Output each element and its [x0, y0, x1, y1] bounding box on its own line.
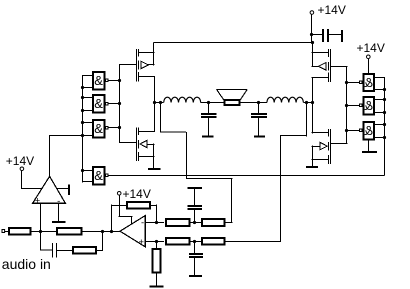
svg-text:+14V: +14V: [318, 3, 346, 17]
svg-text:-: -: [57, 196, 60, 207]
svg-text:+: +: [35, 195, 41, 206]
svg-text:&: &: [94, 168, 103, 183]
svg-text:&: &: [94, 73, 103, 88]
svg-text:+14V: +14V: [6, 154, 34, 168]
svg-text:+: +: [139, 237, 145, 248]
svg-text:-: -: [141, 218, 144, 229]
svg-text:&: &: [94, 121, 103, 136]
svg-text:&: &: [364, 75, 373, 90]
svg-text:+14V: +14V: [357, 41, 385, 55]
svg-text:&: &: [94, 96, 103, 111]
svg-text:audio in: audio in: [2, 256, 51, 272]
svg-text:&: &: [364, 98, 373, 113]
svg-text:+14V: +14V: [123, 187, 151, 201]
svg-text:&: &: [364, 123, 373, 138]
